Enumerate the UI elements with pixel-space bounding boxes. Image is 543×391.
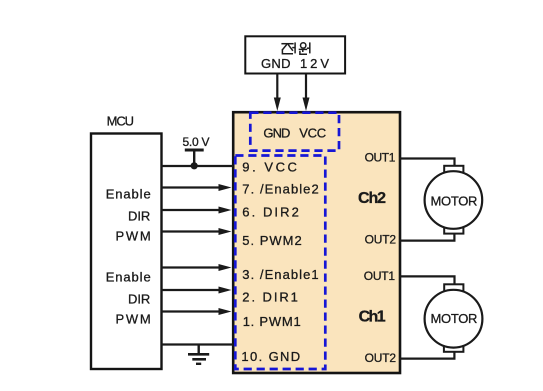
svg-text:PWM: PWM (116, 229, 151, 244)
svg-text:1. PWM1: 1. PWM1 (243, 314, 301, 329)
svg-text:MCU: MCU (107, 114, 134, 129)
svg-text:OUT2: OUT2 (365, 233, 397, 247)
svg-text:Ch1: Ch1 (359, 309, 386, 326)
svg-text:MOTOR: MOTOR (431, 194, 478, 209)
svg-text:OUT1: OUT1 (365, 150, 396, 164)
svg-text:GND: GND (261, 56, 291, 71)
svg-text:DIR: DIR (128, 209, 150, 224)
svg-text:Enable: Enable (106, 270, 151, 285)
svg-text:MOTOR: MOTOR (431, 311, 478, 326)
svg-text:10. GND: 10. GND (241, 349, 300, 364)
svg-text:Enable: Enable (106, 187, 151, 202)
svg-text:7. /Enable2: 7. /Enable2 (242, 182, 318, 197)
svg-text:PWM: PWM (116, 312, 151, 327)
svg-text:3. /Enable1: 3. /Enable1 (242, 267, 318, 282)
svg-text:5.0 V: 5.0 V (183, 135, 210, 149)
svg-text:Ch2: Ch2 (358, 190, 386, 207)
svg-text:DIR: DIR (128, 292, 150, 307)
svg-text:OUT1: OUT1 (364, 269, 396, 283)
svg-text:5. PWM2: 5. PWM2 (242, 233, 301, 248)
svg-text:12V: 12V (300, 56, 329, 71)
svg-text:GND: GND (263, 126, 290, 141)
svg-text:OUT2: OUT2 (365, 351, 397, 365)
svg-text:VCC: VCC (299, 126, 326, 141)
